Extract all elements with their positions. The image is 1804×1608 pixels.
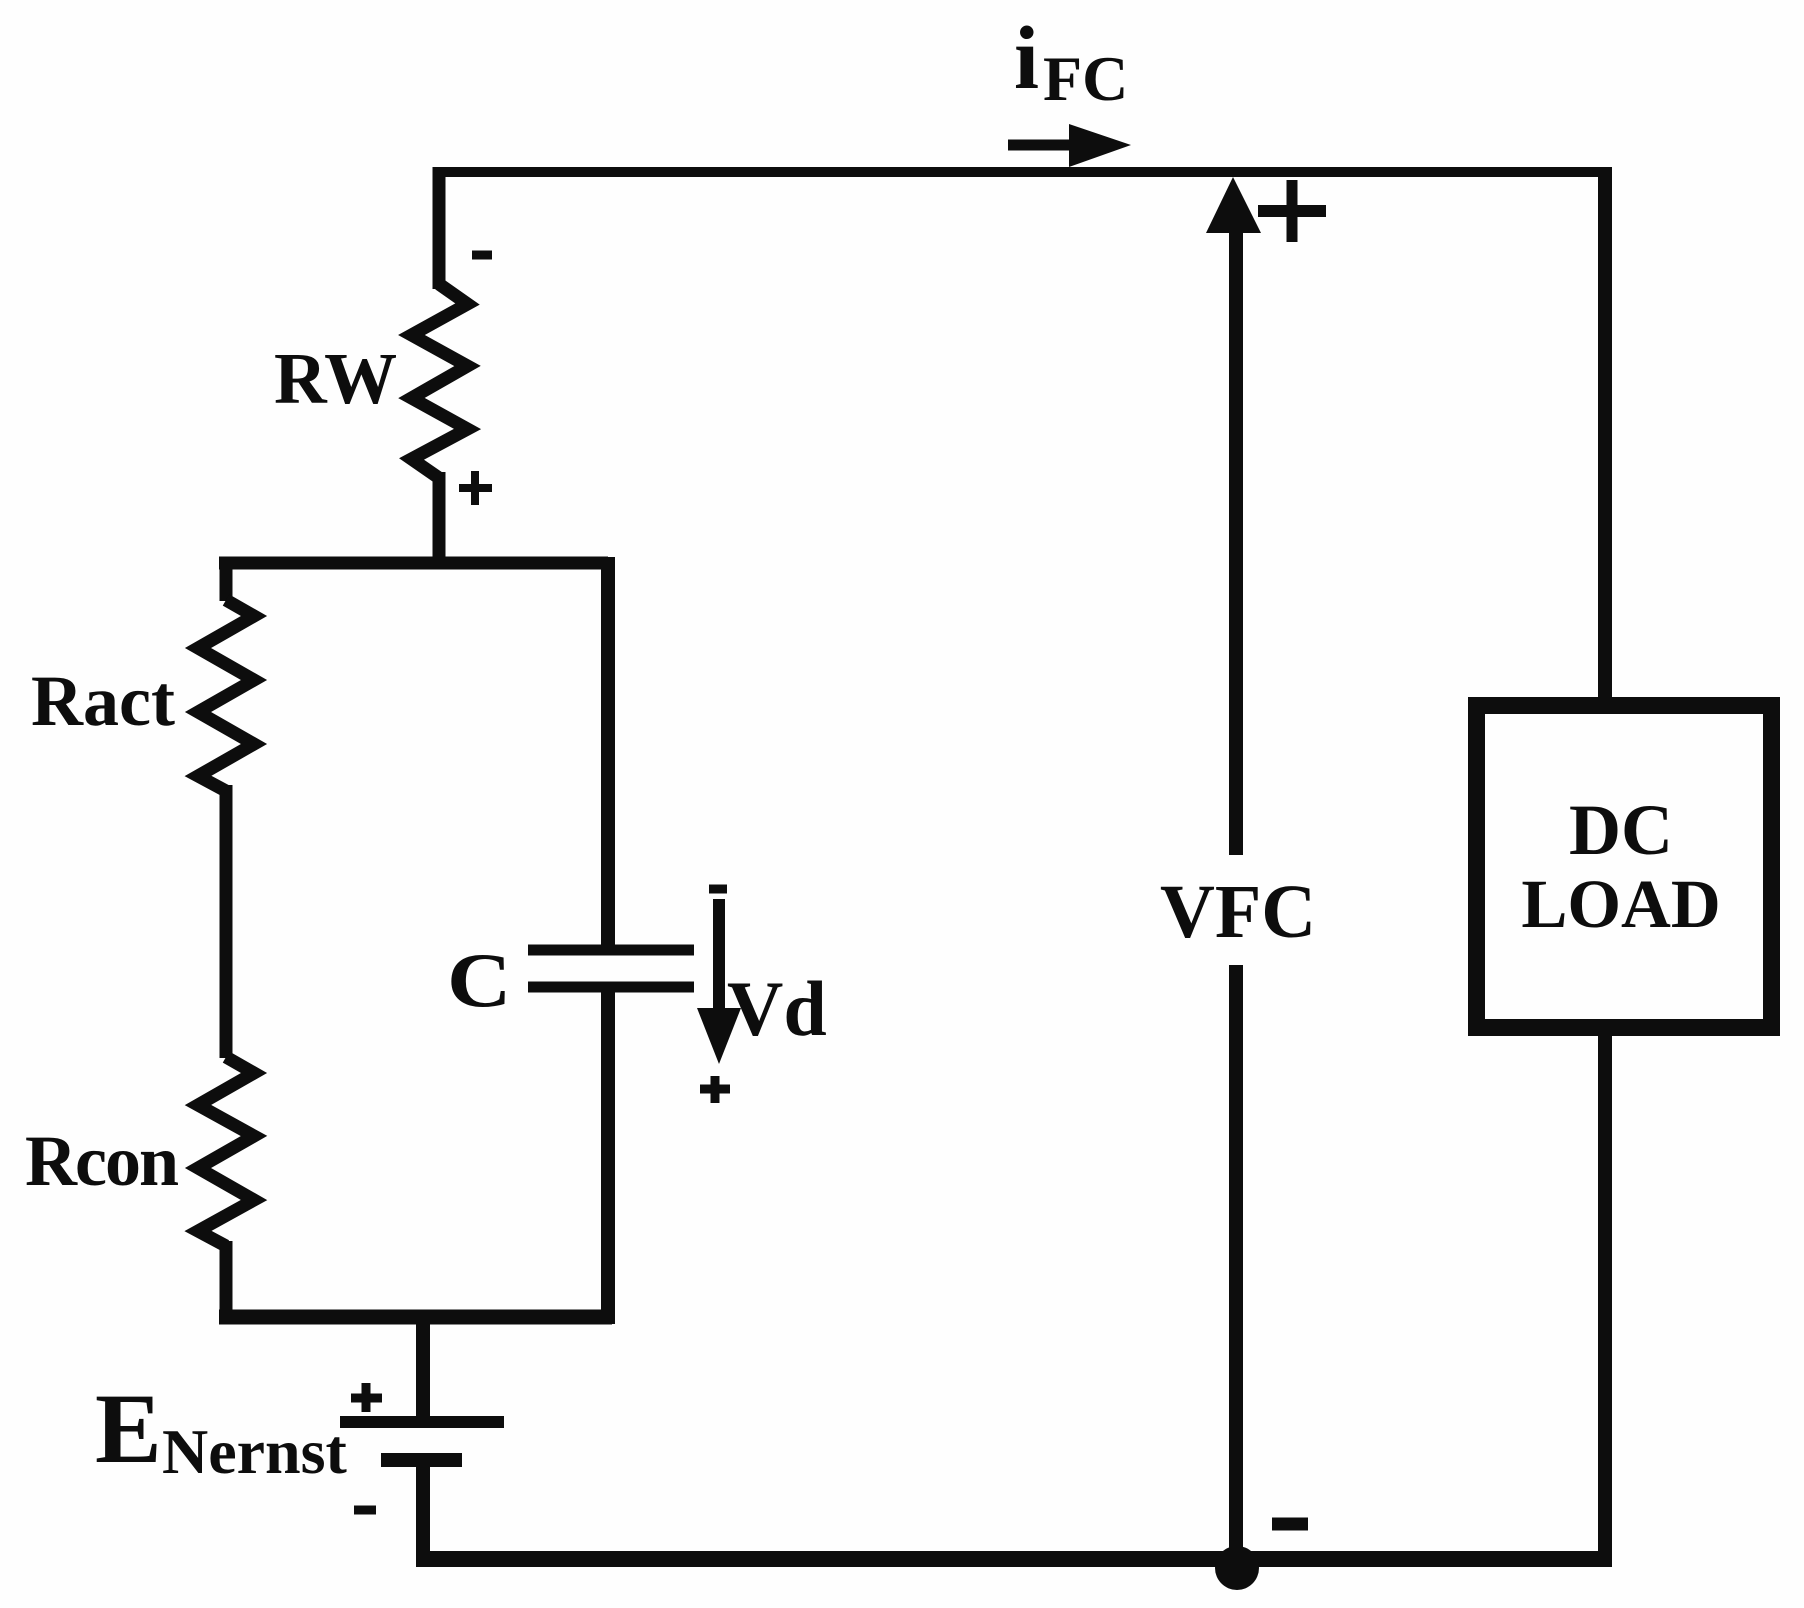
resistor RW [412,284,468,478]
svg-text:Nernst: Nernst [162,1416,348,1487]
wire right vertical bottom [1598,1028,1612,1559]
wire battery stub top [416,1310,430,1422]
svg-text:LOAD: LOAD [1521,866,1720,942]
polarity minus above Vd [709,885,727,894]
junction dot [1215,1546,1259,1590]
wire right branch lower [601,987,615,1324]
voltage arrow VFC head [1206,177,1261,233]
battery ENernst positive plate [340,1416,504,1428]
polarity minus above RW [472,251,492,260]
polarity plus top near VFC [1258,180,1326,242]
svg-text:Vd: Vd [727,965,827,1052]
svg-text:E: E [95,1373,162,1484]
wire right branch upper [601,557,615,950]
svg-text:FC: FC [1043,43,1128,114]
battery ENernst negative plate [381,1453,462,1467]
wire parallel block top edge [219,557,608,570]
svg-text:i: i [1014,9,1039,108]
svg-text:C: C [447,939,512,1024]
label DC LOAD [1521,790,1720,942]
wire left branch lower [220,1241,233,1317]
wire parallel block bottom edge [219,1310,612,1325]
current arrow iFC [1008,124,1131,167]
polarity plus below Vd [700,1076,730,1103]
polarity plus below RW [459,471,492,505]
wire bottom horizontal [416,1551,1612,1567]
svg-text:Rcon: Rcon [25,1121,178,1201]
wire battery stub bottom [416,1460,430,1566]
resistor Rcon [198,1057,254,1246]
polarity plus above battery [351,1383,382,1412]
label iFC [1014,9,1128,114]
svg-text:RW: RW [274,338,397,419]
polarity minus below battery [354,1506,376,1515]
svg-text:Ract: Ract [31,661,175,741]
DC load box [1477,706,1772,1028]
wire left vertical top [433,167,446,289]
label ENernst [95,1373,348,1487]
wire right vertical top [1598,167,1612,706]
polarity minus near junction [1272,1518,1308,1531]
capacitor C [528,950,694,987]
resistor Ract [198,600,254,791]
wire left branch middle [220,785,233,1058]
wire top horizontal [433,167,1612,177]
svg-text:DC: DC [1569,790,1673,870]
voltage arrow VFC line upper segment [1229,232,1243,855]
wire RW to parallel block [433,472,446,563]
svg-text:VFC: VFC [1160,870,1316,954]
voltage arrow VFC line lower segment [1229,965,1243,1559]
voltage arrow Vd [697,899,741,1064]
wire left branch upper [220,557,233,601]
